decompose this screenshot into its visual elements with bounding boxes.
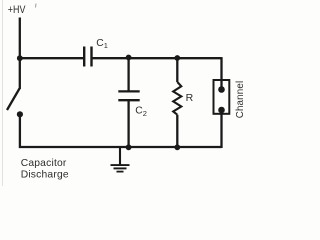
channel box — [214, 80, 230, 114]
capacitor C2 — [118, 58, 147, 148]
left page-edge artifact — [2, 0, 4, 186]
node junction dot at C2 top — [126, 55, 132, 61]
wire: left vertical from +HV to switch — [19, 18, 21, 90]
node junction dot at R top — [174, 55, 180, 61]
node junction dot top-left — [17, 55, 23, 61]
wire: channel top lead — [220, 57, 222, 89]
channel electrode bottom — [218, 107, 225, 114]
svg-text:Discharge: Discharge — [21, 170, 69, 181]
capacitor C1 — [84, 38, 108, 67]
wire: channel bottom lead — [220, 110, 222, 148]
svg-text:Capacitor: Capacitor — [21, 158, 67, 169]
svg-text:1: 1 — [104, 41, 108, 50]
svg-text:+HV: +HV — [8, 4, 26, 16]
switch contact dot — [17, 111, 23, 117]
switch blade — [7, 89, 20, 111]
node junction dot at R bottom — [174, 144, 180, 150]
stray tick mark — [35, 4, 38, 8]
wire: top horizontal right segment from C1 to channel — [92, 57, 222, 59]
svg-text:R: R — [186, 92, 194, 104]
svg-text:Channel: Channel — [235, 81, 246, 119]
node junction dot at C2 bottom — [126, 144, 132, 150]
wire: top horizontal left segment to C1 — [20, 57, 84, 59]
svg-text:2: 2 — [143, 109, 147, 118]
ground — [111, 147, 130, 172]
resistor R — [173, 58, 193, 148]
wire: left vertical below switch + bottom horizontal — [20, 114, 222, 147]
channel electrode top — [218, 86, 225, 93]
